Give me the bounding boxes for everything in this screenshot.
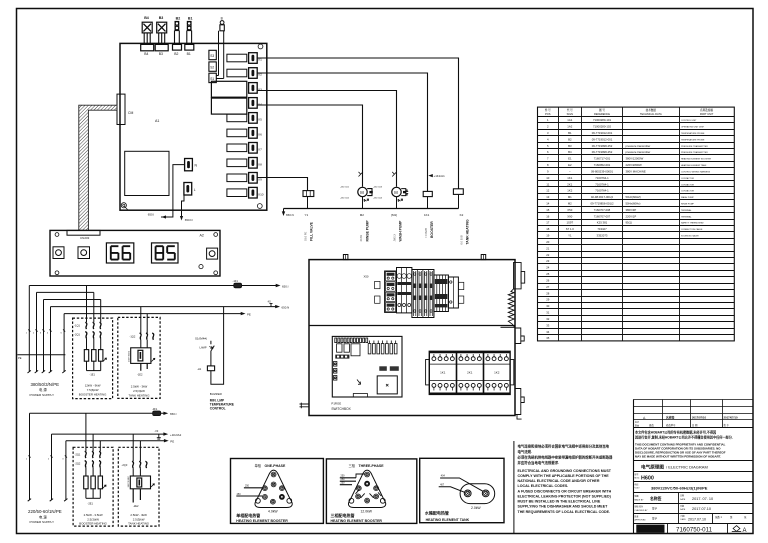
svg-text:1A1: 1A1 xyxy=(567,118,572,122)
svg-text:TANK HEATING: TANK HEATING xyxy=(129,393,151,397)
svg-text:B2: B2 xyxy=(568,137,572,141)
tank heating text 380 xyxy=(129,384,151,397)
switch S1 xyxy=(209,73,216,82)
tank heating text 220 xyxy=(128,513,150,525)
svg-text:X50: X50 xyxy=(567,208,572,212)
7-seg display "66" xyxy=(106,243,133,263)
tank heating box 380V xyxy=(118,317,160,398)
svg-text:RINSE PUMP: RINSE PUMP xyxy=(681,204,695,206)
svg-text:A: A xyxy=(743,528,747,534)
svg-text:1S9T E1E2: 1S9T E1E2 xyxy=(128,476,130,488)
svg-text:E1: E1 xyxy=(568,157,572,161)
svg-text:B: B xyxy=(221,16,223,20)
tank heating box 220V xyxy=(118,447,159,526)
svg-text:-1E1: -1E1 xyxy=(90,372,96,376)
svg-text:-1F1: -1F1 xyxy=(233,279,239,283)
svg-text:TEMPERATURE PROBE: TEMPERATURE PROBE xyxy=(681,132,705,135)
wire 650N from L xyxy=(180,195,193,222)
svg-text:2017.07.10: 2017.07.10 xyxy=(692,507,711,511)
svg-text:SIGN: SIGN xyxy=(567,112,573,116)
svg-text:X5: X5 xyxy=(258,118,262,122)
svg-text:SAFETY THERMOSTAT: SAFETY THERMOSTAT xyxy=(681,222,704,225)
svg-text:TERMINAL: TERMINAL xyxy=(681,215,692,218)
pin labels -250 xyxy=(340,186,383,199)
svg-text:1S9T: 1S9T xyxy=(566,221,573,225)
wire 220 N xyxy=(52,430,182,439)
sensor B wire to S1 xyxy=(216,16,224,78)
svg-text:650.I: 650.I xyxy=(170,412,177,416)
svg-text:TERMINAL: TERMINAL xyxy=(681,209,692,212)
svg-text:ONE-PHASE: ONE-PHASE xyxy=(265,464,286,468)
svg-text:WASH PUMP: WASH PUMP xyxy=(399,220,403,242)
net label 1K1 booster xyxy=(424,213,434,238)
svg-text:BUZZER: BUZZER xyxy=(210,392,223,396)
svg-text:MADE BY: MADE BY xyxy=(635,498,645,501)
switch S3 xyxy=(209,50,216,59)
svg-text:CN203: CN203 xyxy=(80,236,90,240)
svg-text:Y1: Y1 xyxy=(305,213,309,217)
temperature sensor B4 xyxy=(141,16,154,56)
svg-text:PE: PE xyxy=(18,356,22,360)
connector X6 xyxy=(227,128,262,139)
svg-text:7160952-001: 7160952-001 xyxy=(594,163,611,167)
svg-text:DATE: DATE xyxy=(680,498,686,501)
svg-text:PRESSURE TRANSMITTER: PRESSURE TRANSMITTER xyxy=(681,151,708,154)
svg-text:7160707-007: 7160707-007 xyxy=(594,214,611,218)
DIN bracket bottom right xyxy=(515,389,524,420)
svg-text:2K1: 2K1 xyxy=(467,371,473,375)
svg-text:09-7719012-001: 09-7719012-001 xyxy=(592,137,613,141)
connector X7 xyxy=(227,143,262,154)
wire PE xyxy=(64,312,251,317)
svg-text:24: 24 xyxy=(546,266,550,270)
svg-text:11: 11 xyxy=(546,182,549,186)
svg-text:22: 22 xyxy=(546,253,550,257)
booster heating text 380 xyxy=(79,384,107,397)
temperature sensor B3 xyxy=(155,16,168,56)
svg-text:1A2: 1A2 xyxy=(567,125,572,129)
svg-text:更改: 更改 xyxy=(649,423,654,427)
svg-text:B2: B2 xyxy=(176,17,181,21)
svg-text:ELECTRICAL AND GROUNDING CONNE: ELECTRICAL AND GROUNDING CONNECTIONS MUS… xyxy=(518,469,612,473)
svg-text:25: 25 xyxy=(546,272,550,276)
svg-text:250: 250 xyxy=(237,493,242,496)
wire X4 to M2 xyxy=(257,105,362,187)
power lines 380V L1 L2 L3 N PE xyxy=(28,286,66,374)
svg-text:-2Q2: -2Q2 xyxy=(75,462,81,466)
svg-text:POS: POS xyxy=(545,112,551,116)
relay board text xyxy=(331,401,351,410)
svg-text:X50: X50 xyxy=(364,274,369,278)
wire 650I from N xyxy=(148,165,185,219)
wire X9 to Y1 xyxy=(257,178,307,191)
svg-text:31: 31 xyxy=(546,311,550,315)
svg-text:名称签: 名称签 xyxy=(666,416,675,420)
svg-text:+1K1/A1: +1K1/A1 xyxy=(434,174,446,178)
svg-text:签 字: 签 字 xyxy=(724,423,730,427)
svg-text:TANK HEATING: TANK HEATING xyxy=(465,219,469,244)
svg-text:1K1: 1K1 xyxy=(424,213,430,217)
svg-text:-2Q1: -2Q1 xyxy=(74,333,80,337)
svg-text:03.6 PE: 03.6 PE xyxy=(304,232,308,241)
breaker -1Q2 xyxy=(130,307,154,348)
svg-text:BOOSTER HEATING: BOOSTER HEATING xyxy=(79,522,107,526)
terminal marks X0 380V xyxy=(26,333,63,335)
svg-text:17: 17 xyxy=(546,221,550,225)
svg-text:电气原理图: 电气原理图 xyxy=(641,463,664,470)
svg-text:B4: B4 xyxy=(144,16,149,20)
svg-text:7160717-001: 7160717-001 xyxy=(594,157,611,161)
svg-text:CM: CM xyxy=(128,111,133,115)
svg-text:2017. 07. 10: 2017. 07. 10 xyxy=(692,497,713,501)
svg-text:15: 15 xyxy=(546,208,550,212)
svg-text:-250 C04: -250 C04 xyxy=(373,198,383,200)
svg-text:本文件包含HOBART公司的专有机密数据,未经许可,不得因: 本文件包含HOBART公司的专有机密数据,未经许可,不得因 xyxy=(634,430,716,435)
svg-text:380/50/3/N/PE: 380/50/3/N/PE xyxy=(31,382,60,387)
connector X5 xyxy=(227,113,262,124)
contactor coil K2 xyxy=(453,189,463,209)
svg-text:71000280-102: 71000280-102 xyxy=(593,125,611,129)
DIN bracket top right xyxy=(514,263,525,289)
revision table xyxy=(633,400,753,534)
svg-text:S2: S2 xyxy=(210,66,214,70)
7-seg display "85" xyxy=(152,243,179,263)
svg-text:71000280-101: 71000280-101 xyxy=(593,118,611,122)
svg-text:16: 16 xyxy=(546,214,550,218)
svg-text:-H1: -H1 xyxy=(197,367,202,371)
svg-text:pressure transmitter: pressure transmitter xyxy=(626,144,651,148)
wire X3 to M1 xyxy=(257,91,396,187)
svg-text:THREE-PHASE: THREE-PHASE xyxy=(359,464,385,468)
svg-text:HOBART: HOBART xyxy=(638,527,653,531)
svg-text:B1: B1 xyxy=(188,17,193,21)
svg-text:CONNECTION CABLE: CONNECTION CABLE xyxy=(681,228,703,231)
svg-text:LOCAL ELECTRICAL CODES.: LOCAL ELECTRICAL CODES. xyxy=(518,484,569,488)
connector CN203 xyxy=(67,230,100,240)
svg-text:其进行会开,复制,未经HOBART公司允许不得擅自使用其中任: 其进行会开,复制,未经HOBART公司允许不得擅自使用其中任何一部分. xyxy=(634,434,733,439)
svg-text:6.0 B./B: 6.0 B./B xyxy=(459,235,463,244)
connector X2 xyxy=(227,68,262,79)
svg-text:7160764-1: 7160764-1 xyxy=(595,182,609,186)
svg-text:A2: A2 xyxy=(200,233,204,237)
svg-text:1K1: 1K1 xyxy=(440,371,446,375)
svg-text:DATE: DATE xyxy=(680,508,686,511)
svg-text:RINSE PUMP: RINSE PUMP xyxy=(365,220,369,242)
wire N xyxy=(51,300,290,309)
svg-text:COMPLY WITH THE APPLICABLE POR: COMPLY WITH THE APPLICABLE PORTIONS OF T… xyxy=(518,474,610,478)
svg-text:HEATING ELEMENT BOOSTER: HEATING ELEMENT BOOSTER xyxy=(236,519,288,523)
svg-text:-1Q1: -1Q1 xyxy=(74,323,80,327)
svg-text:40.63: 40.63 xyxy=(359,234,363,241)
svg-text:7.0 B2/B: 7.0 B2/B xyxy=(424,228,428,238)
buzzer -H1 xyxy=(197,307,224,385)
svg-text:S3: S3 xyxy=(210,54,214,58)
switchbox left plugs xyxy=(300,403,310,409)
svg-text:单相配电热管: 单相配电热管 xyxy=(236,512,260,518)
net label K2 tank heating xyxy=(459,213,469,245)
svg-text:图 号: 图 号 xyxy=(599,108,605,112)
bottom strip separator xyxy=(513,441,515,534)
bus wire 650N xyxy=(282,209,459,218)
PE crossbar xyxy=(17,355,65,360)
svg-text:签字: 签字 xyxy=(652,517,658,521)
svg-text:1S9T E1E2: 1S9T E1E2 xyxy=(128,350,130,362)
plug contacts on M2 wire xyxy=(359,172,363,177)
parts table header xyxy=(545,108,714,116)
svg-text:代 号: 代 号 xyxy=(567,108,573,112)
svg-text:09-7719012-001: 09-7719012-001 xyxy=(592,131,613,135)
svg-text:23: 23 xyxy=(546,259,550,263)
breaker -1Q1 xyxy=(74,286,101,350)
switchbox enclosure xyxy=(309,260,515,416)
contactors 1K1 2K1 1K2 xyxy=(426,351,514,394)
relay board P1 xyxy=(332,336,402,397)
power lines 220V xyxy=(28,413,68,501)
svg-text:-2Q1: -2Q1 xyxy=(75,452,81,456)
svg-text:K2: K2 xyxy=(460,213,464,217)
net label Y1 fill valve xyxy=(304,213,314,241)
svg-text:B1: B1 xyxy=(568,131,572,135)
svg-text:M2: M2 xyxy=(360,213,364,217)
booster heating box 220V xyxy=(73,447,113,526)
svg-text:FILL VALVE: FILL VALVE xyxy=(310,221,314,241)
svg-text:DATE: DATE xyxy=(681,518,687,521)
heating element booster one-phase box xyxy=(231,459,324,524)
connector X3 xyxy=(249,83,262,94)
svg-text:220/50-60/1N/PE: 220/50-60/1N/PE xyxy=(28,509,62,514)
svg-text:-X0: -X0 xyxy=(267,300,271,303)
svg-text:SWITCHBOX: SWITCHBOX xyxy=(331,407,351,411)
svg-text:-250 C03: -250 C03 xyxy=(373,186,383,188)
svg-text:220V/1P: 220V/1P xyxy=(626,214,637,218)
svg-text:407: 407 xyxy=(440,484,445,487)
svg-text:S7 1.0: S7 1.0 xyxy=(566,227,575,231)
svg-text:650.N: 650.N xyxy=(185,218,193,222)
svg-text:380V MACHINE: 380V MACHINE xyxy=(626,169,646,173)
svg-text:TECHNICAL DATA: TECHNICAL DATA xyxy=(640,112,662,116)
svg-text:三相: 三相 xyxy=(349,463,355,468)
svg-text:2.0kW: 2.0kW xyxy=(471,506,481,510)
svg-text:单相: 单相 xyxy=(255,463,261,468)
svg-text:名称签: 名称签 xyxy=(650,496,662,501)
svg-text:380V/12000W: 380V/12000W xyxy=(626,157,644,161)
svg-text:HEATING ELEMENT BOOSTER: HEATING ELEMENT BOOSTER xyxy=(331,519,383,523)
wire X1 to K2 xyxy=(257,58,458,189)
svg-text:CONTROL UNIT: CONTROL UNIT xyxy=(681,120,697,122)
svg-text:10: 10 xyxy=(546,176,550,180)
svg-text:TEMPERATURE PROBE: TEMPERATURE PROBE xyxy=(681,138,705,141)
svg-text:技术数据: 技术数据 xyxy=(646,108,657,112)
svg-text:HEATING ELEMENT TANK: HEATING ELEMENT TANK xyxy=(426,518,470,522)
svg-text:VOLT: VOLT xyxy=(635,488,641,490)
svg-text:B3: B3 xyxy=(159,16,164,20)
svg-text:29: 29 xyxy=(546,298,550,302)
svg-text:7.5(6)kW: 7.5(6)kW xyxy=(87,388,99,392)
title: voltage xyxy=(634,482,754,491)
svg-text:X90: X90 xyxy=(567,214,572,218)
button SW1 xyxy=(53,247,64,259)
svg-text:三相配电热管: 三相配电热管 xyxy=(331,512,355,518)
label 220/50-60/1/N/PE power supply xyxy=(28,509,62,524)
svg-text:-X0: -X0 xyxy=(155,430,159,433)
revision table rows text xyxy=(635,416,738,428)
svg-text:09-7719856-001(2: 09-7719856-001(2 xyxy=(590,202,613,206)
svg-text:WASH PUMP: WASH PUMP xyxy=(681,196,694,199)
wire L1 with fuse -1F1 xyxy=(29,279,288,288)
svg-text:M: M xyxy=(394,190,398,195)
heating resistors -1E1 xyxy=(84,350,106,377)
svg-text:404: 404 xyxy=(441,474,446,477)
heating element booster three-phase box xyxy=(326,459,416,524)
svg-text:BOOSTER HEATING: BOOSTER HEATING xyxy=(79,393,107,397)
svg-text:PE: PE xyxy=(247,312,251,316)
svg-text:电气法规.: 电气法规. xyxy=(518,449,533,454)
svg-text:POWER SUPPLY: POWER SUPPLY xyxy=(30,520,55,524)
svg-text:2017/07/10: 2017/07/10 xyxy=(724,416,738,420)
wire 220 PE xyxy=(66,439,174,444)
svg-text:--: -- xyxy=(569,169,571,173)
svg-text:1K1: 1K1 xyxy=(567,176,572,180)
svg-text:220V/2800W: 220V/2800W xyxy=(626,163,643,167)
svg-text:2017.07.10: 2017.07.10 xyxy=(688,517,706,521)
svg-text:必须在洗碗机供电线路中安装带漏电保护器的熔断开关或断路器: 必须在洗碗机供电线路中安装带漏电保护器的熔断开关或断路器 xyxy=(517,455,614,460)
svg-text:/ ELECTRIC DIAGRAM: / ELECTRIC DIAGRAM xyxy=(666,464,708,469)
svg-text:E2: E2 xyxy=(568,163,572,167)
svg-text:LAMP: LAMP xyxy=(200,345,207,349)
svg-text:1K2: 1K2 xyxy=(494,371,500,375)
pressure switch B2 xyxy=(173,17,182,56)
wall (hatched) xyxy=(79,105,117,230)
switch S2 xyxy=(209,62,216,71)
svg-text:B3: B3 xyxy=(159,52,163,56)
motor M1 (wash pump) xyxy=(392,187,408,208)
svg-text:THE REQUIREMENTS OF LOCAL ELEC: THE REQUIREMENTS OF LOCAL ELECTRICAL COD… xyxy=(518,510,611,514)
svg-text:S1/(M4#): S1/(M4#) xyxy=(195,337,207,341)
svg-text:CONTROL: CONTROL xyxy=(210,407,226,411)
svg-text:[M1]: [M1] xyxy=(391,213,397,217)
title block proprietary notes xyxy=(634,427,754,429)
svg-text:H600: H600 xyxy=(641,476,654,482)
svg-text:M: M xyxy=(360,190,364,195)
drawing number row xyxy=(636,524,746,535)
svg-text:09-800239-00001: 09-800239-00001 xyxy=(591,169,614,173)
svg-text:2.5kW - 3kW: 2.5kW - 3kW xyxy=(131,384,148,388)
svg-text:件 号: 件 号 xyxy=(545,108,551,112)
buzzer labels xyxy=(210,392,234,410)
svg-text:张数 1: 张数 1 xyxy=(715,515,722,519)
svg-text:修改单号: 修改单号 xyxy=(666,423,676,427)
connector X4 xyxy=(249,98,262,109)
wire X2 to 1K1 xyxy=(257,73,427,191)
svg-text:B1: B1 xyxy=(187,52,191,56)
svg-text:电 源: 电 源 xyxy=(39,387,47,392)
svg-text:BOOSTER: BOOSTER xyxy=(430,221,434,238)
switchbox mounting tab left xyxy=(343,255,348,260)
plug contacts on M1 wire xyxy=(392,172,396,177)
svg-text:MOD.: MOD. xyxy=(635,478,641,480)
svg-text:13: 13 xyxy=(546,195,550,199)
tank heating element -2E2 xyxy=(128,476,154,508)
buzzer switch S1 xyxy=(195,337,214,366)
svg-text:名称及规格: 名称及规格 xyxy=(700,108,713,112)
svg-text:33: 33 xyxy=(546,323,550,327)
svg-text:7160750-011: 7160750-011 xyxy=(676,526,713,533)
label +1K1/A1 xyxy=(428,174,445,178)
svg-text:CONTACTOR: CONTACTOR xyxy=(681,183,694,186)
pressure switch B1 xyxy=(185,17,194,56)
svg-text:TANK HEATING: TANK HEATING xyxy=(128,522,150,526)
svg-text:02-98.0617-001(2: 02-98.0617-001(2 xyxy=(591,195,614,199)
title: electric diagram xyxy=(634,461,754,471)
svg-text:7160764-1: 7160764-1 xyxy=(595,189,609,193)
svg-text:Y1: Y1 xyxy=(568,234,572,238)
svg-text:S1: S1 xyxy=(210,77,214,81)
switchbox mounting tab right xyxy=(481,255,486,260)
relay K4 block xyxy=(211,98,246,114)
svg-text:X7: X7 xyxy=(258,147,262,151)
svg-text:-3F1: -3F1 xyxy=(152,407,158,411)
svg-text:09-7719998-252: 09-7719998-252 xyxy=(592,150,613,154)
svg-text:250: 250 xyxy=(245,485,250,488)
connector X8 xyxy=(227,158,262,169)
svg-text:SUPPLYING THE DISHWASHER AND S: SUPPLYING THE DISHWASHER AND SHOULD MEET xyxy=(518,505,609,509)
svg-text:MUST BE INSTALLED IN THE ELECT: MUST BE INSTALLED IN THE ELECTRICAL LINE xyxy=(518,500,601,504)
wire L3 xyxy=(44,299,101,301)
svg-text:7160764-1: 7160764-1 xyxy=(595,176,609,180)
svg-text:650.I: 650.I xyxy=(282,284,289,288)
svg-text:27: 27 xyxy=(546,285,550,289)
svg-text:X10: X10 xyxy=(258,192,264,196)
svg-text:19: 19 xyxy=(546,234,550,238)
svg-text:250: 250 xyxy=(341,482,346,485)
svg-text:CONTACTOR: CONTACTOR xyxy=(681,190,694,193)
label 380/50/3/N/PE power supply xyxy=(30,382,60,397)
svg-text:650.N: 650.N xyxy=(286,213,294,217)
svg-text:水箱配电热管: 水箱配电热管 xyxy=(424,510,449,516)
svg-text:L: L xyxy=(194,188,196,192)
svg-text:32: 32 xyxy=(546,317,550,321)
svg-text:HEATING ELEMENT TANK: HEATING ELEMENT TANK xyxy=(681,164,707,167)
svg-text:12: 12 xyxy=(546,189,550,193)
connector X10 xyxy=(227,187,264,198)
svg-text:3352073: 3352073 xyxy=(597,234,608,238)
svg-text:50Hz(60Hz): 50Hz(60Hz) xyxy=(626,202,641,206)
svg-text:18: 18 xyxy=(546,227,550,231)
svg-text:-2E2: -2E2 xyxy=(133,504,139,508)
svg-text:NATIONAL ELECTRICAL CODE AND/O: NATIONAL ELECTRICAL CODE AND/OR OTHER xyxy=(518,479,600,483)
heating element tank box xyxy=(420,458,504,522)
breaker -2Q3 xyxy=(122,434,147,476)
wire L2 xyxy=(37,291,94,293)
svg-text:B2: B2 xyxy=(174,52,178,56)
motor M2 (rinse pump) xyxy=(358,187,373,208)
svg-text:电气连接和接地必须符合国家电气法规中适用部分及其他当地: 电气连接和接地必须符合国家电气法规中适用部分及其他当地 xyxy=(518,444,610,449)
svg-text:并应符合当地电气法规要求.: 并应符合当地电气法规要求. xyxy=(518,460,560,465)
svg-text:A FUSED DISCONNECTS OR CIRCUIT: A FUSED DISCONNECTS OR CIRCUIT BREAKER W… xyxy=(518,489,612,493)
wire 220 L with fuse -3F1 xyxy=(30,407,177,416)
svg-text:APPROVED: APPROVED xyxy=(635,519,647,522)
svg-text:34: 34 xyxy=(546,330,550,334)
svg-text:A1: A1 xyxy=(155,119,159,123)
svg-text:B4: B4 xyxy=(568,150,572,154)
svg-text:K25 381: K25 381 xyxy=(597,221,608,225)
svg-text:CONTACTOR: CONTACTOR xyxy=(681,177,694,180)
booster heating box 380V xyxy=(73,318,113,399)
svg-text:-2Q3: -2Q3 xyxy=(122,463,128,467)
svg-text:50Hz(60HZ): 50Hz(60HZ) xyxy=(626,195,641,199)
installation notes xyxy=(517,444,614,514)
net label M1 wash pump xyxy=(391,213,403,242)
